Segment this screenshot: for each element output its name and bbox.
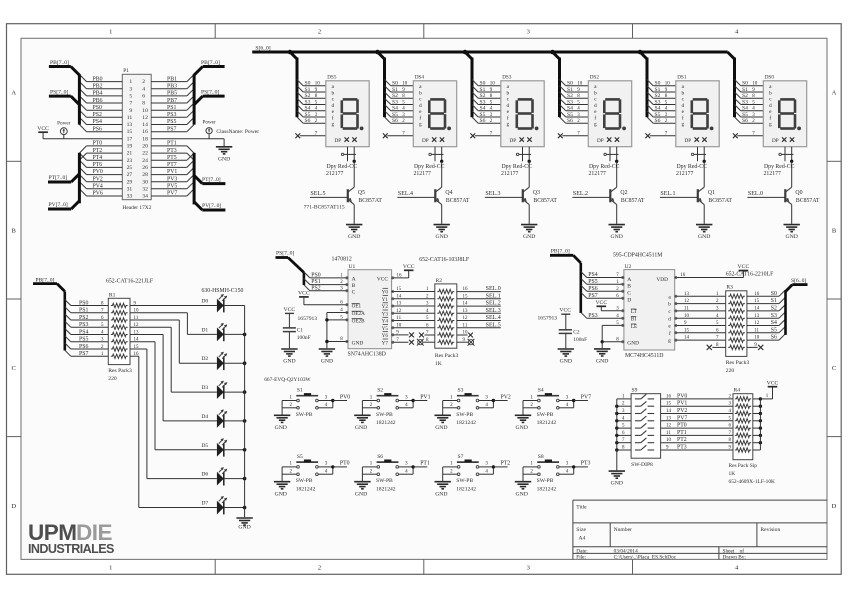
svg-text:Revision: Revision <box>760 527 780 533</box>
svg-text:S8: S8 <box>538 454 544 460</box>
svg-text:Y6: Y6 <box>382 333 389 339</box>
svg-text:Dpy Red-CC: Dpy Red-CC <box>677 164 708 170</box>
svg-text:SEL.4: SEL.4 <box>398 191 413 197</box>
svg-text:S5: S5 <box>567 112 573 118</box>
svg-text:b: b <box>668 302 671 308</box>
svg-text:PB0: PB0 <box>93 76 103 82</box>
svg-text:BC857AT: BC857AT <box>533 198 557 204</box>
svg-text:OE1: OE1 <box>352 304 362 310</box>
svg-text:D6: D6 <box>201 472 208 478</box>
svg-text:d: d <box>668 316 671 322</box>
svg-text:PB4: PB4 <box>93 91 103 97</box>
svg-text:212177: 212177 <box>764 171 781 177</box>
svg-text:DP: DP <box>510 138 517 144</box>
svg-text:34: 34 <box>142 194 148 200</box>
svg-text:PB1: PB1 <box>167 76 177 82</box>
svg-text:S3: S3 <box>771 313 777 319</box>
svg-text:SEL.4: SEL.4 <box>486 315 501 321</box>
svg-text:C1: C1 <box>297 328 304 334</box>
svg-text:5: 5 <box>129 94 132 100</box>
svg-text:SEL.2: SEL.2 <box>573 191 588 197</box>
svg-text:2: 2 <box>142 79 145 85</box>
svg-text:PV0: PV0 <box>93 169 103 175</box>
svg-text:1821242: 1821242 <box>376 486 396 492</box>
svg-text:BC857AT: BC857AT <box>358 198 382 204</box>
svg-text:1: 1 <box>109 29 112 36</box>
svg-text:PS3: PS3 <box>588 313 597 319</box>
svg-text:S1: S1 <box>567 87 573 93</box>
svg-text:PB[7..0]: PB[7..0] <box>50 60 69 66</box>
svg-text:S1: S1 <box>297 388 303 394</box>
svg-text:PV0: PV0 <box>677 393 687 399</box>
svg-text:PS4: PS4 <box>588 272 597 278</box>
svg-text:VCC: VCC <box>403 264 415 270</box>
svg-text:C: C <box>832 365 836 372</box>
svg-text:8: 8 <box>142 101 145 107</box>
svg-text:PS4: PS4 <box>93 119 102 125</box>
svg-text:D2: D2 <box>201 356 208 362</box>
svg-text:S5: S5 <box>742 112 748 118</box>
svg-text:S6: S6 <box>655 118 661 124</box>
svg-text:14: 14 <box>684 336 690 341</box>
svg-text:A4: A4 <box>579 536 586 542</box>
svg-text:b: b <box>681 91 684 97</box>
svg-text:d: d <box>681 103 684 109</box>
svg-text:1K: 1K <box>435 361 442 367</box>
svg-text:GND: GND <box>348 234 360 240</box>
svg-text:A: A <box>627 277 631 283</box>
svg-text:Y5: Y5 <box>382 326 389 332</box>
svg-text:SW-PB: SW-PB <box>456 412 473 418</box>
svg-text:D0: D0 <box>201 299 208 305</box>
svg-text:S2: S2 <box>655 93 661 99</box>
svg-text:PB2: PB2 <box>93 84 103 90</box>
svg-text:SW-PB: SW-PB <box>376 412 393 418</box>
svg-text:Q3: Q3 <box>533 190 540 196</box>
svg-text:S4: S4 <box>305 106 311 112</box>
svg-text:SEL.0: SEL.0 <box>748 191 763 197</box>
svg-text:10: 10 <box>752 82 758 87</box>
svg-text:630-HSMH-C150: 630-HSMH-C150 <box>202 288 244 294</box>
svg-text:PS2: PS2 <box>93 112 102 118</box>
svg-text:f: f <box>332 115 334 122</box>
svg-text:C: C <box>352 289 356 295</box>
svg-text:B: B <box>832 227 837 234</box>
svg-text:13: 13 <box>127 122 133 128</box>
svg-text:S5: S5 <box>297 454 303 460</box>
svg-text:GND: GND <box>321 359 333 365</box>
svg-text:1: 1 <box>109 565 112 572</box>
svg-text:Power: Power <box>202 120 216 126</box>
svg-text:SW-PB: SW-PB <box>376 478 393 484</box>
svg-text:1821242: 1821242 <box>296 486 316 492</box>
svg-text:12: 12 <box>684 299 690 304</box>
svg-text:VCC: VCC <box>559 307 571 313</box>
svg-text:S5: S5 <box>771 327 777 333</box>
svg-text:S0: S0 <box>742 81 748 87</box>
svg-text:PV7: PV7 <box>677 415 687 421</box>
svg-text:GND: GND <box>560 359 572 365</box>
svg-text:PT7: PT7 <box>167 162 177 168</box>
svg-text:PB3: PB3 <box>167 84 177 90</box>
svg-text:652-4609X-1LF-10K: 652-4609X-1LF-10K <box>729 479 776 485</box>
svg-text:D3: D3 <box>201 385 208 391</box>
svg-text:g: g <box>681 122 684 128</box>
svg-text:1821242: 1821242 <box>537 420 557 426</box>
svg-text:212177: 212177 <box>326 171 343 177</box>
svg-text:S1: S1 <box>392 87 398 93</box>
svg-text:S0: S0 <box>392 81 398 87</box>
svg-text:A: A <box>832 90 837 97</box>
svg-text:S5: S5 <box>392 112 398 118</box>
svg-text:VCC: VCC <box>37 126 49 132</box>
svg-text:10: 10 <box>315 82 321 87</box>
svg-text:b: b <box>594 91 597 97</box>
svg-text:PV5: PV5 <box>167 184 177 190</box>
svg-text:100nF: 100nF <box>297 335 311 341</box>
svg-text:S3: S3 <box>480 99 486 105</box>
svg-text:Res Pack3: Res Pack3 <box>726 360 750 366</box>
svg-text:DS0: DS0 <box>765 75 775 81</box>
svg-text:DS3: DS3 <box>502 75 512 81</box>
svg-text:16: 16 <box>142 129 148 135</box>
svg-text:PS6: PS6 <box>79 344 88 350</box>
svg-text:1: 1 <box>129 79 132 85</box>
svg-text:B: B <box>627 284 631 290</box>
svg-text:GND: GND <box>435 425 447 431</box>
svg-text:PV[7..0]: PV[7..0] <box>49 202 68 208</box>
svg-text:S2: S2 <box>567 93 573 99</box>
svg-text:S6: S6 <box>377 454 383 460</box>
svg-text:A: A <box>11 90 16 97</box>
svg-text:LT: LT <box>631 309 638 315</box>
svg-text:P1: P1 <box>123 68 129 74</box>
svg-text:S6: S6 <box>480 118 486 124</box>
svg-text:PB[7..0]: PB[7..0] <box>551 249 570 255</box>
svg-text:PB6: PB6 <box>93 98 103 104</box>
svg-text:4: 4 <box>735 29 739 36</box>
svg-text:18: 18 <box>142 136 148 142</box>
svg-text:R1: R1 <box>109 292 116 298</box>
svg-text:SW-PB: SW-PB <box>296 412 313 418</box>
svg-text:10: 10 <box>490 82 496 87</box>
svg-text:S4: S4 <box>480 106 486 112</box>
svg-text:VCC: VCC <box>377 277 388 283</box>
svg-text:S3: S3 <box>305 99 311 105</box>
svg-text:16: 16 <box>666 394 672 399</box>
svg-text:S1: S1 <box>742 87 748 93</box>
svg-text:GND: GND <box>698 234 710 240</box>
svg-text:PS1: PS1 <box>311 279 320 285</box>
svg-text:g: g <box>506 122 509 128</box>
svg-text:SEL.1: SEL.1 <box>486 293 501 299</box>
svg-text:DS4: DS4 <box>415 75 425 81</box>
svg-text:23: 23 <box>127 158 133 164</box>
svg-text:S0: S0 <box>305 81 311 87</box>
svg-text:9: 9 <box>129 108 132 114</box>
svg-text:PV1: PV1 <box>167 169 177 175</box>
svg-text:PS[7..0]: PS[7..0] <box>201 90 219 96</box>
svg-text:Sheet of: Sheet of <box>723 547 745 554</box>
svg-text:Dpy Red-CC: Dpy Red-CC <box>764 164 795 170</box>
svg-text:BC857AT: BC857AT <box>708 198 732 204</box>
svg-text:DP: DP <box>597 138 604 144</box>
svg-text:PT2: PT2 <box>501 461 511 467</box>
svg-text:S1: S1 <box>305 87 311 93</box>
svg-text:S1: S1 <box>655 87 661 93</box>
svg-text:B: B <box>352 283 356 289</box>
svg-text:25: 25 <box>127 165 133 171</box>
svg-text:PT3: PT3 <box>581 461 591 467</box>
svg-text:GND: GND <box>516 425 528 431</box>
svg-text:Res Pack3: Res Pack3 <box>108 368 132 374</box>
svg-text:D: D <box>627 298 631 304</box>
svg-text:Y2: Y2 <box>382 304 389 310</box>
svg-text:U2: U2 <box>625 264 632 270</box>
svg-text:f: f <box>594 115 596 122</box>
svg-text:24: 24 <box>142 158 148 164</box>
svg-text:27: 27 <box>127 172 133 178</box>
svg-text:SEL.0: SEL.0 <box>486 286 501 292</box>
svg-text:D5: D5 <box>201 443 208 449</box>
svg-text:VCC: VCC <box>298 291 310 297</box>
svg-text:R4: R4 <box>734 387 741 393</box>
svg-text:U1: U1 <box>349 264 356 270</box>
svg-text:Power: Power <box>57 121 71 127</box>
svg-text:C:\Users\..\Placa_ES.SchDoc: C:\Users\..\Placa_ES.SchDoc <box>614 555 677 561</box>
svg-text:PS[7..0]: PS[7..0] <box>276 251 294 257</box>
svg-text:DS5: DS5 <box>327 75 337 81</box>
svg-text:PS2: PS2 <box>79 315 88 321</box>
svg-text:Y3: Y3 <box>382 311 389 317</box>
svg-text:12: 12 <box>142 115 148 121</box>
svg-text:DS2: DS2 <box>590 75 600 81</box>
svg-text:DP: DP <box>422 138 429 144</box>
svg-text:4: 4 <box>142 86 145 92</box>
svg-text:S6: S6 <box>567 118 573 124</box>
svg-text:15: 15 <box>666 402 672 407</box>
svg-text:212177: 212177 <box>589 171 606 177</box>
svg-text:B: B <box>12 227 17 234</box>
svg-text:d: d <box>594 103 597 109</box>
svg-text:C: C <box>12 365 16 372</box>
svg-text:S2: S2 <box>377 388 383 394</box>
svg-text:S0: S0 <box>655 81 661 87</box>
svg-text:21: 21 <box>127 151 133 157</box>
svg-text:11: 11 <box>684 307 689 312</box>
svg-text:14: 14 <box>666 409 672 414</box>
svg-text:PT6: PT6 <box>93 162 103 168</box>
svg-text:GND: GND <box>596 359 608 365</box>
svg-text:GND: GND <box>611 234 623 240</box>
svg-text:PV1: PV1 <box>677 401 687 407</box>
svg-text:d: d <box>506 103 509 109</box>
svg-text:GND: GND <box>436 234 448 240</box>
svg-text:19: 19 <box>127 144 133 150</box>
svg-text:BI: BI <box>631 317 636 323</box>
svg-text:INDUSTRIALES: INDUSTRIALES <box>28 542 114 556</box>
svg-text:g: g <box>331 122 334 128</box>
svg-text:GND: GND <box>218 156 230 162</box>
svg-text:GND: GND <box>523 234 535 240</box>
svg-text:S9: S9 <box>632 387 638 393</box>
svg-text:PB5: PB5 <box>167 91 177 97</box>
svg-text:VCC: VCC <box>595 300 607 306</box>
svg-text:3: 3 <box>527 565 530 572</box>
svg-text:S3: S3 <box>742 99 748 105</box>
svg-text:26: 26 <box>142 165 148 171</box>
svg-text:6: 6 <box>142 94 145 100</box>
svg-text:S2: S2 <box>771 306 777 312</box>
svg-text:Dpy Red-CC: Dpy Red-CC <box>414 164 445 170</box>
svg-text:SW-PB: SW-PB <box>456 478 473 484</box>
svg-text:PS0: PS0 <box>93 105 102 111</box>
svg-text:b: b <box>331 91 334 97</box>
svg-text:PT5: PT5 <box>167 155 177 161</box>
svg-text:D1: D1 <box>201 327 208 333</box>
svg-text:S0: S0 <box>567 81 573 87</box>
svg-text:PT0: PT0 <box>677 423 687 429</box>
svg-text:File:: File: <box>576 555 586 561</box>
svg-text:PS5: PS5 <box>79 337 88 343</box>
svg-text:Q2: Q2 <box>620 190 627 196</box>
svg-text:15: 15 <box>684 328 690 333</box>
svg-text:DP: DP <box>772 138 779 144</box>
svg-text:S5: S5 <box>480 112 486 118</box>
svg-text:14: 14 <box>142 122 148 128</box>
svg-text:212177: 212177 <box>676 171 693 177</box>
svg-text:VCC: VCC <box>767 380 779 386</box>
svg-text:PS7: PS7 <box>167 126 176 132</box>
svg-text:PV2: PV2 <box>93 176 103 182</box>
svg-text:1821242: 1821242 <box>456 420 476 426</box>
svg-text:S2: S2 <box>480 93 486 99</box>
svg-text:GND: GND <box>786 234 798 240</box>
svg-text:1821242: 1821242 <box>456 486 476 492</box>
svg-text:SW-PB: SW-PB <box>537 478 554 484</box>
svg-text:f: f <box>682 115 684 122</box>
svg-text:D4: D4 <box>201 414 208 420</box>
svg-text:S0: S0 <box>480 81 486 87</box>
svg-text:PB[7..0]: PB[7..0] <box>201 60 220 66</box>
svg-text:PS6: PS6 <box>93 126 102 132</box>
svg-text:C2: C2 <box>573 330 580 336</box>
svg-text:D: D <box>11 503 16 510</box>
svg-text:f: f <box>419 115 421 122</box>
svg-text:R3: R3 <box>726 285 733 291</box>
svg-text:PS2: PS2 <box>311 285 320 291</box>
svg-text:PV4: PV4 <box>93 184 103 190</box>
svg-text:7: 7 <box>129 101 132 107</box>
svg-text:11: 11 <box>127 115 133 121</box>
svg-text:1657913: 1657913 <box>538 315 558 321</box>
svg-text:GND: GND <box>275 491 287 497</box>
svg-text:212177: 212177 <box>414 171 431 177</box>
svg-text:PS1: PS1 <box>167 105 176 111</box>
svg-text:OE2B: OE2B <box>352 319 366 325</box>
svg-text:4: 4 <box>735 565 739 572</box>
svg-text:28: 28 <box>142 172 148 178</box>
svg-text:C: C <box>627 291 631 297</box>
svg-text:Drawn By:: Drawn By: <box>723 555 747 561</box>
svg-text:PT4: PT4 <box>93 155 103 161</box>
svg-text:220: 220 <box>726 368 735 374</box>
svg-text:PV3: PV3 <box>167 176 177 182</box>
svg-text:b: b <box>419 91 422 97</box>
svg-text:S4: S4 <box>771 320 777 326</box>
svg-text:Number: Number <box>614 527 632 533</box>
svg-text:DP: DP <box>335 138 342 144</box>
svg-text:S6: S6 <box>742 118 748 124</box>
svg-text:595-CDP4HC4511M: 595-CDP4HC4511M <box>613 253 662 259</box>
svg-text:Title: Title <box>576 505 587 511</box>
svg-text:652-CAT16-221JLF: 652-CAT16-221JLF <box>106 279 154 285</box>
svg-text:1470812: 1470812 <box>332 256 352 262</box>
svg-text:Dpy Red-CC: Dpy Red-CC <box>327 164 358 170</box>
svg-text:GND: GND <box>627 341 639 347</box>
svg-text:PS4: PS4 <box>79 329 88 335</box>
svg-text:Res Pack3: Res Pack3 <box>435 353 459 359</box>
svg-text:22: 22 <box>142 151 148 157</box>
svg-text:GND: GND <box>355 425 367 431</box>
svg-text:PS1: PS1 <box>79 308 88 314</box>
svg-text:GND: GND <box>275 425 287 431</box>
svg-text:S7: S7 <box>458 454 464 460</box>
svg-text:11: 11 <box>666 431 671 436</box>
svg-text:PV7: PV7 <box>167 191 177 197</box>
svg-text:PB7: PB7 <box>167 98 177 104</box>
svg-text:SEL.5: SEL.5 <box>486 322 501 328</box>
svg-text:d: d <box>331 103 334 109</box>
svg-text:PS5: PS5 <box>167 119 176 125</box>
svg-text:D7: D7 <box>201 501 208 507</box>
svg-text:Q5: Q5 <box>358 190 365 196</box>
svg-text:b: b <box>506 91 509 97</box>
svg-text:g: g <box>668 338 671 344</box>
svg-text:SEL.1: SEL.1 <box>660 191 675 197</box>
svg-text:Q4: Q4 <box>445 190 452 196</box>
svg-text:13: 13 <box>666 416 672 421</box>
svg-text:S6: S6 <box>305 118 311 124</box>
svg-text:S4: S4 <box>567 106 573 112</box>
svg-text:SW-DIP8: SW-DIP8 <box>631 462 653 468</box>
svg-text:PV1: PV1 <box>420 394 430 400</box>
svg-text:GND: GND <box>355 491 367 497</box>
svg-text:Y7: Y7 <box>382 340 389 346</box>
svg-text:S4: S4 <box>655 106 661 112</box>
svg-text:DS1: DS1 <box>677 75 687 81</box>
svg-text:652-CAT16-2210LF: 652-CAT16-2210LF <box>726 272 774 278</box>
svg-text:GND: GND <box>611 481 623 487</box>
svg-text:BC857AT: BC857AT <box>796 198 820 204</box>
svg-text:Q1: Q1 <box>708 190 715 196</box>
svg-text:16: 16 <box>680 273 686 278</box>
svg-text:29: 29 <box>127 179 133 185</box>
svg-text:212177: 212177 <box>501 171 518 177</box>
svg-text:12: 12 <box>666 424 672 429</box>
svg-text:16: 16 <box>397 273 403 278</box>
svg-text:PV[7..0]: PV[7..0] <box>202 203 221 209</box>
svg-text:S5: S5 <box>655 112 661 118</box>
svg-text:PV6: PV6 <box>93 191 103 197</box>
svg-text:D: D <box>832 503 837 510</box>
svg-text:DP: DP <box>685 138 692 144</box>
svg-text:100nF: 100nF <box>573 337 587 343</box>
svg-text:33: 33 <box>127 194 133 200</box>
svg-text:PT[7..0]: PT[7..0] <box>49 175 68 181</box>
svg-text:S3: S3 <box>458 388 464 394</box>
svg-text:GND: GND <box>435 491 447 497</box>
